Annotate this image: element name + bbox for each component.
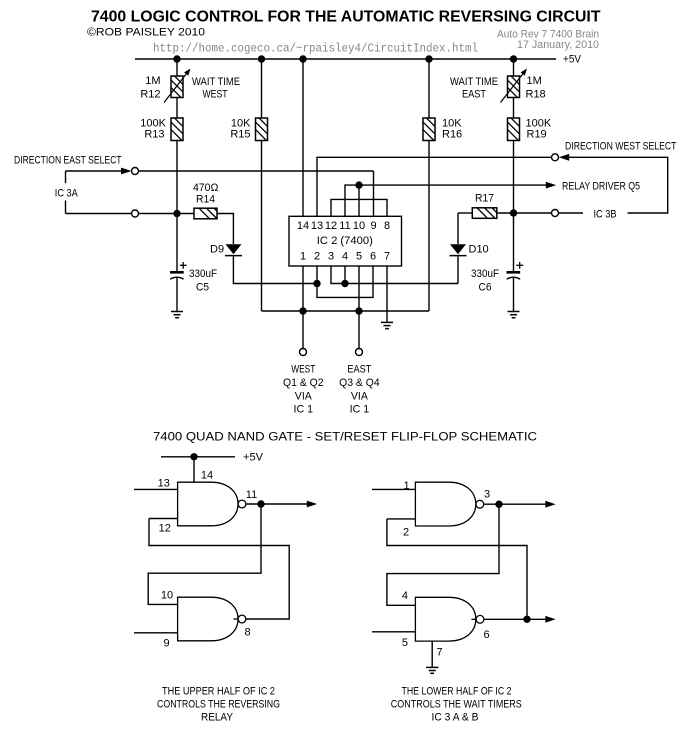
svg-text:2: 2 (403, 527, 409, 539)
svg-text:WEST: WEST (291, 364, 315, 376)
svg-text:7400 LOGIC CONTROL FOR THE AUT: 7400 LOGIC CONTROL FOR THE AUTOMATIC REV… (91, 9, 601, 26)
wire C6 to ground (513, 278, 515, 312)
arrow output 3 (545, 501, 555, 508)
junction output 3 (495, 501, 502, 508)
arrow to relay driver (546, 182, 556, 189)
svg-text:IC 1: IC 1 (294, 404, 314, 416)
wire pin 2 below box (316, 266, 318, 284)
svg-text:THE UPPER HALF OF IC 2: THE UPPER HALF OF IC 2 (162, 686, 275, 698)
svg-text:R18: R18 (526, 89, 546, 101)
junction on rail at R16 column (425, 55, 432, 62)
svg-text:1M: 1M (145, 75, 160, 87)
svg-text:1: 1 (403, 480, 409, 492)
resistor R19 (495, 117, 536, 143)
wire timing row R15 to R16 (262, 310, 430, 312)
wire relay driver row (359, 184, 546, 186)
svg-text:http://home.cogeco.ca/~rpaisle: http://home.cogeco.ca/~rpaisley4/Circuit… (153, 42, 478, 56)
wire input pin 13 (134, 488, 178, 490)
svg-text:470Ω: 470Ω (193, 182, 219, 194)
wire pin 5 down to east output (358, 266, 360, 348)
wire pin 4 below box (344, 266, 346, 284)
svg-text:IC 1: IC 1 (350, 404, 370, 416)
svg-text:8: 8 (244, 627, 250, 639)
arrow into west select terminal (559, 154, 569, 161)
wire D10 column from R17 row (457, 213, 459, 244)
wire output pin 11 (246, 503, 307, 505)
wire east select row to pin 9 column (139, 170, 374, 172)
wire circle to R14 row (139, 213, 194, 215)
wire pin 13 up and right to west select (317, 157, 552, 216)
svg-text:4: 4 (402, 590, 408, 602)
svg-text:R19: R19 (527, 129, 547, 141)
svg-text:R17: R17 (475, 192, 494, 204)
svg-text:7400 QUAD NAND GATE - SET/RESE: 7400 QUAD NAND GATE - SET/RESET FLIP-FLO… (153, 429, 537, 443)
wire D10 down to row (457, 256, 459, 283)
svg-text:9: 9 (370, 220, 376, 232)
arrow into east select terminal (121, 168, 131, 175)
wire pin 3 down and right to D10 (331, 266, 458, 284)
svg-text:IC 2 (7400): IC 2 (7400) (317, 235, 373, 247)
wire pin 11 up to relay node (345, 185, 359, 216)
svg-text:DIRECTION WEST SELECT: DIRECTION WEST SELECT (565, 140, 677, 152)
svg-text:17 January, 2010: 17 January, 2010 (517, 39, 599, 51)
wire output pin 6 (484, 618, 545, 620)
label WEST Q1 Q2 VIA IC 1 (283, 364, 324, 416)
svg-text:Q3 & Q4: Q3 & Q4 (339, 377, 380, 389)
svg-text:VIA: VIA (351, 390, 369, 402)
svg-text:R14: R14 (196, 194, 215, 206)
svg-text:13: 13 (158, 477, 170, 489)
nand gate U2B (178, 597, 238, 641)
junction output 6 (523, 616, 530, 623)
nand gate U2A (178, 482, 238, 526)
diode D9 (226, 244, 242, 254)
wire R14 to D9 corner (217, 214, 233, 245)
svg-text:IC 3B: IC 3B (594, 208, 617, 220)
nand gate U2C (415, 482, 475, 526)
capacitor C6 (507, 262, 524, 279)
svg-text:2: 2 (314, 251, 320, 263)
svg-text:VIA: VIA (295, 390, 313, 402)
wire +5V rail (135, 58, 556, 60)
junction pin 2 and D9 row (313, 280, 320, 287)
ground below C5 (171, 312, 183, 318)
svg-text:R16: R16 (442, 129, 462, 141)
wire output 3 to input 4 crossover (387, 504, 499, 605)
svg-text:+5V: +5V (243, 452, 264, 464)
caption lower half (391, 686, 522, 724)
ground below pin 7 stub (426, 667, 439, 673)
diode D10 (450, 244, 466, 254)
resistor R13 (159, 117, 200, 143)
terminal circle IC3B row (552, 210, 559, 217)
svg-text:C5: C5 (196, 282, 209, 294)
wire pin 7 to ground (386, 266, 388, 322)
resistor R17 (472, 203, 505, 221)
svg-text:R15: R15 (230, 129, 250, 141)
svg-text:7: 7 (437, 646, 443, 658)
svg-text:6: 6 (370, 251, 376, 263)
wire pin 14 column from rail to box (302, 59, 304, 216)
svg-text:©ROB PAISLEY 2010: ©ROB PAISLEY 2010 (87, 27, 205, 39)
arrow output 11 (307, 501, 317, 508)
svg-text:3: 3 (328, 251, 334, 263)
wire R19 down to IC3B row junction (513, 141, 515, 214)
svg-text:IC 3 A & B: IC 3 A & B (432, 711, 479, 723)
wire IC3B row left segment (559, 212, 583, 214)
wire pin 10 up to relay node (358, 185, 360, 216)
wire C5 lead from junction (176, 214, 178, 272)
wire pin 14 to gate U2A (193, 457, 195, 482)
wire R13 down to junction (176, 141, 178, 214)
svg-text:9: 9 (164, 637, 170, 649)
svg-text:+5V: +5V (563, 54, 582, 66)
junction pin 4 and D10 row (341, 280, 348, 287)
svg-text:Q1 & Q2: Q1 & Q2 (283, 377, 324, 389)
wire output 6 to input 2 crossover (387, 519, 527, 619)
svg-text:12: 12 (325, 220, 337, 232)
svg-text:14: 14 (201, 469, 213, 481)
svg-text:RELAY: RELAY (201, 711, 234, 723)
wire input pin 1 (372, 488, 415, 490)
svg-text:7: 7 (384, 251, 390, 263)
IC U1 IC2 7400 box (289, 216, 402, 266)
terminal circle EAST output (356, 349, 363, 356)
junction pins 10-11 relay node (355, 181, 362, 188)
svg-text:D10: D10 (469, 244, 489, 256)
wire rail to R18 (513, 59, 515, 76)
junction on rail at pin 14 column (299, 55, 306, 62)
svg-text:10: 10 (353, 220, 365, 232)
svg-text:13: 13 (311, 220, 323, 232)
junction on rail at R12 column (173, 55, 180, 62)
wire IC3A bracket vertical upper (65, 171, 67, 183)
wire output pin 3 (484, 503, 546, 505)
terminal circle west select (552, 154, 559, 161)
wire pin 12 to pin 8 bracket (331, 199, 387, 216)
pin numbers top row 14 13 12 11 10 9 8 (297, 220, 390, 232)
svg-text:C6: C6 (479, 282, 492, 294)
svg-text:RELAY DRIVER Q5: RELAY DRIVER Q5 (562, 180, 640, 192)
junction pin 1 and timing row (299, 307, 306, 314)
label EAST Q3 Q4 VIA IC 1 (339, 364, 380, 416)
svg-text:5: 5 (356, 251, 362, 263)
svg-text:12: 12 (159, 523, 171, 535)
svg-text:1: 1 (300, 251, 306, 263)
wire rail to R12 (176, 59, 178, 76)
wire pin 7 stub (431, 641, 433, 667)
wire IC3A bracket vertical lower (65, 201, 67, 214)
svg-text:330uF: 330uF (189, 268, 217, 280)
svg-text:330uF: 330uF (471, 268, 499, 280)
svg-text:D9: D9 (210, 244, 224, 256)
wire pin 1 down to west output (302, 266, 304, 348)
wire output 11 to input 10 crossover (148, 504, 261, 604)
svg-text:R12: R12 (140, 89, 160, 101)
wire input pin 12 (149, 518, 178, 520)
terminal circle IC3A lower (132, 210, 139, 217)
svg-text:IC 3A: IC 3A (55, 188, 79, 200)
svg-text:11: 11 (246, 489, 257, 501)
wire pin2 down to pin6 bracket (317, 266, 373, 297)
wire input pin 9 (134, 632, 178, 634)
junction pin 5 and timing row (355, 307, 362, 314)
wire R17 left stub (458, 212, 472, 214)
svg-text:10: 10 (161, 589, 173, 601)
wire FF +5V rail (161, 456, 235, 458)
junction at R12 column and R14 row (173, 210, 180, 217)
wire R18 to R19 (513, 98, 515, 119)
ground below pin 7 (381, 322, 393, 328)
junction R19 column on R17 row (510, 209, 517, 216)
junction output 11 (257, 500, 264, 507)
resistor R15 (243, 59, 284, 311)
wire pin 9 drop (373, 171, 375, 216)
pin numbers bottom row 1 2 3 4 5 6 7 (300, 251, 390, 263)
wire IC3A stub bottom (66, 213, 132, 215)
wire input pin 2 (387, 518, 416, 520)
svg-text:5: 5 (402, 637, 408, 649)
svg-text:EAST: EAST (347, 364, 371, 376)
svg-text:CONTROLS THE REVERSING: CONTROLS THE REVERSING (157, 699, 280, 711)
arrow output 6 (545, 616, 555, 623)
svg-text:WAIT TIME: WAIT TIME (192, 76, 240, 88)
wire input pin 5 (372, 631, 415, 633)
resistor R14 (194, 203, 227, 221)
wire C6 lead (513, 213, 515, 271)
svg-text:6: 6 (483, 629, 489, 641)
wire C5 to ground (176, 278, 178, 312)
svg-text:1M: 1M (527, 75, 542, 87)
svg-text:11: 11 (339, 220, 350, 232)
terminal circle east select (132, 168, 139, 175)
svg-text:4: 4 (342, 251, 348, 263)
svg-text:3: 3 (484, 488, 490, 500)
potentiometer R12 (159, 73, 200, 103)
svg-text:CONTROLS THE WAIT TIMERS: CONTROLS THE WAIT TIMERS (391, 699, 522, 711)
caption upper half (157, 686, 280, 724)
wire D9 down and left row to pin2 (233, 256, 317, 283)
ground below C6 (508, 312, 520, 318)
svg-text:8: 8 (384, 220, 390, 232)
wire output 8 to input 12 crossover (149, 519, 289, 620)
wire R17 to IC3B circle (497, 212, 552, 214)
terminal circle WEST output (300, 349, 307, 356)
potentiometer R18 (495, 73, 536, 103)
svg-text:WAIT TIME: WAIT TIME (450, 76, 498, 88)
junction FF +5V (190, 453, 197, 460)
svg-text:THE LOWER HALF OF IC 2: THE LOWER HALF OF IC 2 (402, 686, 512, 698)
svg-text:EAST: EAST (462, 89, 486, 101)
resistor R16 (411, 59, 452, 311)
svg-text:WEST: WEST (203, 89, 228, 101)
svg-text:DIRECTION EAST SELECT: DIRECTION EAST SELECT (14, 154, 122, 166)
wire IC3B row right segment and bracket (569, 157, 668, 213)
junction on rail at R15 column (258, 55, 265, 62)
capacitor C5 (170, 262, 187, 279)
svg-text:14: 14 (297, 220, 309, 232)
junction on rail at R18 column (510, 55, 517, 62)
svg-text:R13: R13 (144, 129, 164, 141)
wire IC3A output stub top (66, 170, 123, 172)
nand gate U2D (415, 597, 475, 641)
wire R12 to R13 (176, 98, 178, 119)
